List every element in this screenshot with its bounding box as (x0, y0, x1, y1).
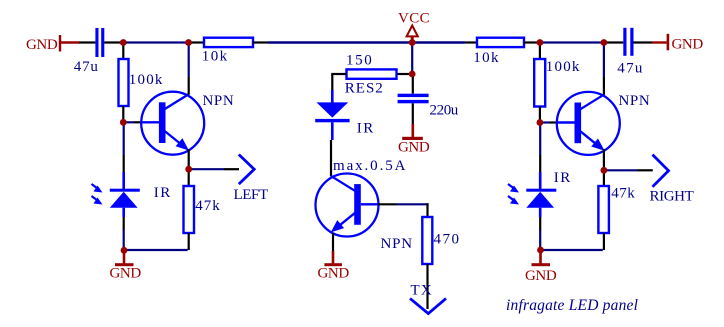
wire black stub to R 10k right (465, 41, 477, 43)
capacitor C1 47u left (74, 28, 104, 75)
power port GND bottom-left (110, 250, 142, 282)
wire node D to C2 (604, 41, 623, 43)
svg-text:100k: 100k (546, 59, 581, 75)
wire bus to VCC node (268, 41, 412, 43)
wire Q2 emitter to GND (332, 233, 334, 251)
wire node H to R 150 (397, 73, 412, 75)
wire R 100k right to node I (539, 107, 541, 123)
transistor Q1 NPN left (141, 92, 235, 155)
junction node C (537, 39, 544, 46)
wire photodiode D1 to node G (123, 217, 125, 250)
wire node E down to photodiode (123, 122, 125, 172)
wire R 470 to TX port (426, 264, 428, 309)
svg-text:IR: IR (357, 121, 375, 137)
svg-text:470: 470 (434, 232, 461, 248)
power port GND middle-bottom (318, 251, 350, 282)
svg-text:GND: GND (26, 37, 58, 53)
svg-text:TX: TX (411, 283, 433, 299)
resistor R 100k right (534, 59, 580, 107)
svg-text:GND: GND (110, 266, 142, 282)
wire node F down to R 47k left (188, 169, 190, 186)
photodiode D1 IR left (92, 172, 172, 217)
svg-text:infragate LED panel: infragate LED panel (506, 297, 638, 314)
svg-text:GND: GND (525, 268, 557, 284)
wire corner to node K (541, 249, 603, 251)
svg-text:150: 150 (346, 53, 373, 69)
wire bus node C to node D (540, 41, 604, 43)
wire R 100k left to node E (122, 106, 124, 122)
svg-text:NPN: NPN (381, 236, 413, 252)
power port GND top-left (26, 35, 79, 53)
junction node I (537, 119, 544, 126)
svg-text:GND: GND (318, 266, 350, 282)
photodiode D3 IR right (508, 170, 572, 217)
wire node J to RIGHT port (604, 169, 653, 171)
port arrow TX (410, 283, 446, 314)
wire node J down to R 47k right (603, 170, 605, 186)
svg-text:RIGHT: RIGHT (650, 189, 694, 205)
junction node J (601, 167, 608, 174)
wire R 47k right to corner (603, 233, 605, 250)
power port GND bottom-right (525, 250, 557, 284)
wire R 150 to D2 anode (331, 74, 346, 90)
resistor 10k left (202, 38, 253, 65)
svg-text:RES2: RES2 (345, 81, 384, 97)
wire R 47k left to corner (188, 233, 190, 250)
svg-text:47u: 47u (617, 61, 643, 77)
svg-text:IR: IR (154, 185, 172, 201)
resistor 10k right (473, 38, 524, 66)
wire node B to R 10k left (189, 41, 205, 43)
port arrow RIGHT (650, 155, 694, 205)
wire R 10k right to node C (524, 41, 540, 43)
svg-text:100k: 100k (129, 72, 164, 88)
junction VCC node (409, 39, 416, 46)
wire VCC node down to node H (411, 43, 413, 75)
wire node C down to R 100k right (539, 43, 541, 60)
power port GND top-right (652, 34, 703, 53)
wire C2 to GND right (634, 41, 653, 43)
wire bus node A to node B (123, 41, 189, 43)
capacitor C2 47u right (617, 28, 643, 77)
junction node H (409, 71, 416, 78)
wire photodiode D3 to node K (539, 217, 541, 250)
svg-text:220u: 220u (430, 103, 459, 119)
power port VCC (398, 11, 430, 43)
svg-text:10k: 10k (473, 50, 500, 66)
resistor R 100k left (119, 59, 164, 106)
svg-text:LEFT: LEFT (234, 187, 268, 203)
junction node A (120, 39, 127, 46)
power port GND under C3 (398, 124, 430, 156)
svg-text:47u: 47u (74, 59, 99, 75)
svg-text:47k: 47k (611, 186, 635, 202)
svg-text:NPN: NPN (619, 93, 651, 109)
wire bus VCC node to R 10k right (412, 41, 465, 43)
transistor Q2 NPN middle (316, 174, 413, 253)
svg-text:47k: 47k (195, 198, 221, 214)
wire R 10k left to bus (253, 41, 268, 43)
wire node F to LEFT port (189, 168, 239, 170)
svg-text:max.0.5A: max.0.5A (333, 158, 407, 174)
resistor R 150 RES2 (345, 53, 397, 97)
wire D2 cathode to Q2 collector (330, 140, 332, 176)
junction node D (601, 39, 608, 46)
port arrow LEFT (234, 155, 268, 204)
svg-text:NPN: NPN (203, 93, 235, 109)
junction node F (185, 166, 192, 173)
junction node K (537, 247, 544, 254)
wire Q3 emitter to node J (603, 149, 605, 170)
wire Q1 collector to node B (188, 45, 190, 95)
svg-text:10k: 10k (202, 49, 229, 65)
wire node E to Q1 base (123, 121, 141, 123)
svg-text:IR: IR (554, 170, 572, 186)
wire Q3 collector to node D (603, 45, 605, 95)
junction node B (185, 39, 192, 46)
LED D2 IR middle (315, 90, 375, 140)
resistor R 47k left (184, 186, 221, 233)
wire C3 to GND (412, 103, 414, 124)
resistor R 47k right (598, 186, 635, 234)
wire node I down to photodiode right (539, 122, 541, 172)
junction node E (120, 119, 127, 126)
wire node A down to R 100k left (122, 43, 124, 60)
junction node G (121, 247, 128, 254)
wire Q1 emitter to node F (188, 149, 190, 169)
capacitor C3 220u (398, 94, 459, 119)
svg-text:GND: GND (672, 37, 704, 53)
transistor Q3 NPN right (556, 92, 650, 155)
svg-text:VCC: VCC (398, 11, 430, 27)
resistor R 470 (422, 217, 460, 264)
wire C1 to node A (104, 41, 123, 43)
wire node I to Q3 base (540, 121, 557, 123)
svg-text:GND: GND (398, 140, 430, 156)
wire Q2 base to R 470 (378, 203, 429, 217)
wire GND to C1 (79, 41, 95, 43)
wire node H down to C3 (412, 74, 414, 94)
wire corner to node G (124, 249, 188, 251)
